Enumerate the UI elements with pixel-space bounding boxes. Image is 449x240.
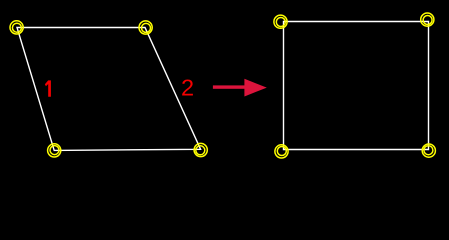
corner marker: left quad bottom-right <box>194 143 207 156</box>
corner marker: left quad bottom-left <box>48 144 61 157</box>
corner marker: right rect top-right <box>421 13 434 26</box>
right rectangle (destination shape) <box>284 22 429 150</box>
svg-text:2: 2 <box>181 74 194 100</box>
corner marker: right rect bottom-right <box>422 144 435 157</box>
label 1 <box>45 80 51 96</box>
corner marker: right rect bottom-left <box>275 145 288 158</box>
corner marker: right rect top-left <box>274 15 287 28</box>
left quadrilateral (source shape) <box>17 28 201 151</box>
red arrow <box>213 79 267 97</box>
corner marker: left quad top-right <box>139 21 152 34</box>
corner marker: left quad top-left <box>10 21 23 34</box>
